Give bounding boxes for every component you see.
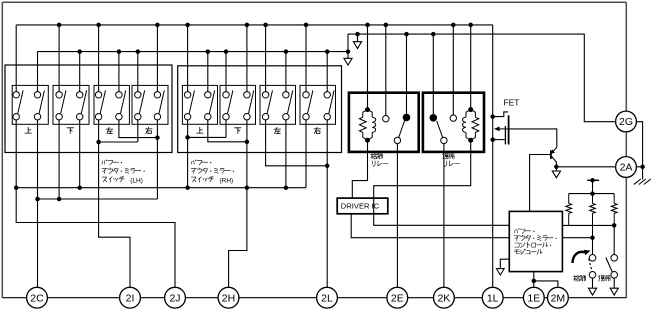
power outer mirror switch (RH) box bbox=[178, 66, 342, 153]
contact: retract relay open contact bbox=[383, 116, 389, 122]
relay coil feed: bus1 to return relay coil bbox=[470, 25, 472, 110]
node: bus2 junction bbox=[206, 49, 211, 54]
ground arrow below return switch bbox=[610, 288, 618, 295]
arrow: page arrow below Q1 collector bbox=[555, 167, 557, 171]
wire: y34 drop to return relay NC contact bbox=[432, 34, 434, 114]
wire: link RH up-left to down-left bbox=[188, 136, 226, 138]
label: return relay caption bbox=[442, 153, 445, 155]
wire: bus1 drop to switch bbox=[98, 25, 100, 92]
wire: RH right-left drop to line A end bbox=[305, 120, 307, 188]
wire: DRIVER IC bottom pin to module bbox=[351, 214, 509, 238]
contact: return relay closed contact (filled) bbox=[430, 114, 438, 122]
transistor FET source lead bbox=[493, 139, 505, 141]
wire: RH down-right down through line A to 2H bbox=[229, 120, 247, 298]
wire: link to 2M bbox=[534, 281, 558, 298]
wire: RH down-left drop to link bbox=[225, 120, 227, 137]
wire: bus 2 (lower horizontal supply bus) bbox=[38, 51, 349, 53]
resistor R at x=592.5 bbox=[592, 194, 594, 204]
node: bus2 junction bbox=[224, 49, 229, 54]
wire: bus2 drop to switch bbox=[37, 52, 39, 92]
switch contact pair (LH 右) bbox=[159, 90, 164, 113]
transistor FET body arrow bbox=[499, 128, 508, 130]
switch unit 左 (RH) box bbox=[260, 85, 296, 124]
ground: chassis ground hatching bbox=[634, 179, 641, 185]
node: bus1 junction bbox=[245, 23, 250, 28]
node: retract switch node bbox=[590, 235, 595, 240]
wire: LH up-right down to line B and 2C bbox=[37, 120, 39, 298]
node: junction on LH right-right wire bbox=[155, 135, 160, 140]
svg-text:FET: FET bbox=[504, 97, 520, 107]
node: return switch node bbox=[612, 223, 617, 228]
switch contact pair (LH 左) bbox=[100, 90, 105, 113]
wire: bus1 drop to switch bbox=[246, 25, 248, 92]
connector terminal 2C bbox=[27, 287, 48, 308]
wire: resistor 1 tail to module line bbox=[568, 213, 570, 225]
node: bus1 junction bbox=[263, 23, 268, 28]
wire: module bottom to 1E bbox=[533, 272, 535, 298]
node: FET drain tap bbox=[490, 114, 495, 119]
switch unit 下 (LH) box bbox=[53, 85, 89, 124]
ic: DRIVER IC box bbox=[337, 198, 388, 214]
label: retract (kakunou) bbox=[574, 275, 576, 281]
wire: LH right-right down to line B bbox=[156, 120, 158, 199]
transistor Q1 collector bbox=[552, 156, 557, 166]
wire: return relay coil to module (crosses DRIVER IC box) bbox=[374, 140, 510, 225]
svg-text:1E: 1E bbox=[527, 292, 540, 304]
connector terminal 2E bbox=[387, 287, 408, 308]
node: FET source tap bbox=[490, 137, 495, 142]
label: 下 (LH) bbox=[67, 127, 73, 129]
relay coil feed: bus1 to retract relay coil bbox=[367, 25, 369, 110]
wire: LH right-left drop to link bbox=[137, 120, 139, 142]
node: bus2 junction bbox=[136, 49, 141, 54]
wire: link LH left-left to right-left bbox=[99, 141, 138, 143]
switch unit 上 (LH) box bbox=[12, 85, 48, 124]
switch contact pair (RH 下) bbox=[228, 90, 233, 113]
switch unit 右 (LH) box bbox=[132, 85, 168, 124]
wire: bus2 drop to switch bbox=[137, 52, 139, 92]
node: line A junction at LH up-left bbox=[14, 185, 19, 190]
wire: 2G right loop to ground bbox=[636, 122, 642, 180]
label: 右 (RH) bbox=[314, 128, 321, 130]
node: bus1 junction for return coil bbox=[468, 23, 473, 28]
wire: bus2 drop to switch bbox=[118, 52, 120, 92]
svg-text:2A: 2A bbox=[620, 162, 633, 174]
svg-text:2K: 2K bbox=[437, 292, 450, 304]
relay: retract relay (Kakunou relay) box bbox=[349, 93, 419, 152]
node: bus2 junction bbox=[284, 49, 289, 54]
node: junction LH left-left / right-left link bbox=[96, 140, 101, 145]
wire: RH up-left down to line A bbox=[187, 120, 189, 188]
svg-text:1L: 1L bbox=[487, 292, 499, 304]
wire: resistor 3 tail to retract line bbox=[613, 213, 615, 225]
wire: bus1 drop to switch bbox=[187, 25, 189, 92]
switch contact pair (LH 上) bbox=[39, 90, 44, 113]
node: junction on RH right-right wire (to 2L) bbox=[325, 164, 330, 169]
connector terminal 2A bbox=[616, 157, 637, 178]
node: y34 junction for retract NC contact bbox=[404, 32, 409, 37]
contact: retract relay common bbox=[394, 137, 400, 143]
svg-text:2M: 2M bbox=[551, 292, 566, 304]
label: switch LH caption bbox=[101, 161, 104, 164]
svg-text:2J: 2J bbox=[169, 292, 180, 304]
wire: bus1 drop to switch bbox=[305, 25, 307, 92]
switch contact pair (LH 下) bbox=[81, 90, 86, 113]
wire: Q1 base to module top bbox=[530, 155, 551, 212]
node: bus1 junction bbox=[155, 23, 160, 28]
transistor FET gate bar bbox=[504, 126, 506, 144]
switch contact pair (RH 上) bbox=[209, 90, 214, 113]
wire: link bus2 end up to y34 line bbox=[347, 34, 349, 52]
arrow: page arrow below y34 line bbox=[357, 34, 359, 42]
svg-text:2H: 2H bbox=[222, 292, 235, 304]
wire: y34 branch line from bus2 to 2G bbox=[348, 34, 616, 122]
wire: bus2 drop to switch bbox=[326, 52, 328, 92]
transistor Q1 base bar bbox=[550, 150, 552, 159]
node: bus2 junction bbox=[77, 49, 82, 54]
switch unit 左 (LH) box bbox=[94, 85, 129, 124]
node: line B junction at LH down-left bbox=[57, 197, 62, 202]
node: line A junction at RH down-right bbox=[245, 185, 250, 190]
connector terminal 2M bbox=[548, 287, 569, 308]
switch: mirror return position switch bbox=[613, 225, 615, 254]
switch contact pair (LH 左) bbox=[121, 90, 126, 113]
relay coil L2 with parallel resistor (return relay) bbox=[463, 110, 479, 141]
switch contact pair (LH 上) bbox=[18, 90, 23, 113]
wire: line B common bus bbox=[38, 198, 158, 200]
wire: return relay common down to 2K bbox=[443, 144, 445, 298]
contact: return relay common bbox=[441, 137, 447, 143]
node: resistor bus junction bbox=[590, 191, 595, 196]
arrow: retract actuation arrow bbox=[573, 252, 585, 263]
node: line A junction at RH left-right bbox=[284, 185, 289, 190]
wire: LH left-right elbow to right-right bbox=[119, 120, 157, 138]
switch contact pair (LH 下) bbox=[61, 90, 66, 113]
wire: bus2 drop to switch bbox=[285, 52, 287, 92]
arrow: page arrow below bus2 end bbox=[347, 52, 349, 59]
transistor FET channel bar bbox=[508, 115, 510, 144]
node: junction RH up-left / down-left link bbox=[185, 135, 190, 140]
label: 左 (RH) bbox=[274, 128, 281, 130]
node: line A junction at RH up-left bbox=[185, 185, 190, 190]
connector terminal 2J bbox=[165, 287, 186, 308]
node: bus2 junction bbox=[117, 49, 122, 54]
wire: bus1 drop to switch bbox=[265, 25, 267, 92]
contact: retract relay closed contact (filled) bbox=[403, 114, 411, 122]
node: bus1 junction for return NO contact bbox=[451, 23, 456, 28]
node: junction above 1E bbox=[532, 279, 537, 284]
label: 下 (RH) bbox=[235, 127, 241, 129]
connector terminal 2K bbox=[434, 287, 455, 308]
wire: retract relay common down to 2E bbox=[396, 144, 398, 298]
wire: bus1 drop to switch bbox=[15, 25, 17, 92]
wire: LH up-left down through line A to 2J elbow bbox=[16, 120, 175, 298]
switch contact pair (RH 左) bbox=[267, 90, 272, 113]
label: retract relay caption bbox=[371, 153, 373, 159]
wire: LH left-left down to 2I elbow bbox=[99, 120, 130, 298]
wire: 2A right stub bbox=[636, 166, 642, 168]
node: line B junction at LH up-right bbox=[35, 197, 40, 202]
relay blade: retract relay bbox=[399, 121, 405, 138]
wire: resistor top bus bbox=[569, 193, 615, 195]
svg-text:2L: 2L bbox=[321, 292, 333, 304]
wire: RH left-right drop to line A bbox=[285, 120, 287, 188]
wire: bus1 drop to switch bbox=[58, 25, 60, 92]
power outer mirror switch (LH) box bbox=[5, 65, 172, 153]
svg-text:2C: 2C bbox=[30, 292, 44, 304]
node: retract coil top bbox=[365, 107, 370, 112]
wire: bus1 drop to return relay NO contact bbox=[452, 25, 454, 115]
wire: bus2 drop to switch bbox=[225, 52, 227, 92]
svg-text:2E: 2E bbox=[391, 292, 404, 304]
wire: retract coil to DRIVER IC bbox=[352, 140, 367, 198]
switch unit 右 (RH) box bbox=[300, 85, 336, 124]
node: bus1 junction bbox=[304, 23, 309, 28]
wire: RH right-right down to 2L bbox=[326, 120, 328, 298]
wire: power tap to resistor bus bbox=[592, 180, 594, 193]
node: bus1 junction for retract NO contact bbox=[384, 23, 389, 28]
wire: line A common bus bbox=[16, 187, 306, 189]
svg-text:(LH): (LH) bbox=[130, 177, 143, 184]
wire: outer loop left side bbox=[1, 2, 3, 297]
svg-text:2I: 2I bbox=[126, 292, 135, 304]
switch contact pair (LH 右) bbox=[139, 90, 144, 113]
node: bus1 junction bbox=[185, 23, 190, 28]
wire: resistor 2 tail to return line bbox=[592, 213, 594, 237]
wire: Q1 collector to 2A bbox=[556, 166, 615, 168]
node: line A junction at LH down-right bbox=[77, 185, 82, 190]
switch unit 上 (RH) box bbox=[182, 85, 217, 124]
node: Q1 collector junction bbox=[554, 165, 559, 170]
label: 右 (LH) bbox=[146, 128, 153, 130]
node: y34 junction with page arrow bbox=[355, 32, 360, 37]
wire: RH up-right elbow to down-right bbox=[208, 120, 247, 142]
switch contact pair (RH 左) bbox=[288, 90, 293, 113]
node: bus2 junction bbox=[325, 49, 330, 54]
node: junction on RH down-right wire bbox=[245, 140, 250, 145]
switch contact pair (RH 上) bbox=[189, 90, 194, 113]
wire: module ground stub bbox=[500, 259, 509, 268]
node: bus1 junction for retract coil bbox=[365, 23, 370, 28]
connector terminal 1E bbox=[523, 287, 544, 308]
switch unit 下 (RH) box bbox=[220, 85, 256, 124]
ground arrow below module bbox=[496, 269, 504, 275]
node: retract coil bottom bbox=[365, 138, 370, 143]
label: switch RH caption bbox=[190, 161, 193, 164]
node: power tap junction bbox=[590, 178, 595, 183]
wire: module right pin to return switch line bbox=[562, 237, 592, 239]
module: power outer mirror control module box bbox=[509, 211, 562, 271]
wire: outer loop top side bbox=[2, 1, 626, 3]
node: bus2 end junction bbox=[346, 49, 351, 54]
wire: bus2 drop to switch bbox=[207, 52, 209, 92]
contact: return relay open contact bbox=[450, 115, 456, 121]
node: bus1 junction bbox=[57, 23, 62, 28]
relay coil L1 with parallel resistor (retract relay) bbox=[359, 110, 375, 141]
connector terminal 1L bbox=[482, 287, 503, 308]
node: ground junction right of 2A bbox=[640, 165, 645, 170]
node: bus1 junction bbox=[96, 23, 101, 28]
wire: outer loop right side (through 2G and 2A) bbox=[625, 2, 627, 297]
label: 左 (LH) bbox=[106, 128, 113, 130]
wire: bus 1 (upper horizontal supply bus) bbox=[16, 24, 493, 26]
resistor R at x=568.7 bbox=[568, 194, 570, 204]
wire: LH down-left drop to line B bbox=[58, 120, 60, 199]
node: return coil bottom bbox=[468, 138, 473, 143]
connector terminal 2I bbox=[120, 287, 141, 308]
ground arrow below retract switch bbox=[588, 288, 596, 295]
wire: LH down-right drop to line A bbox=[79, 120, 81, 188]
label: return (fukki) bbox=[598, 275, 601, 277]
label: 上 (LH) bbox=[27, 127, 29, 133]
wire: bus1 drop to switch bbox=[156, 25, 158, 92]
svg-text:2G: 2G bbox=[619, 116, 633, 128]
wire: bus1 end down through FET to 1L bbox=[492, 25, 494, 298]
resistor R at x=614.2 bbox=[613, 194, 615, 204]
connector terminal 2G bbox=[616, 111, 637, 132]
transistor FET drain lead bbox=[493, 112, 509, 117]
relay: return relay (Fukki relay) box bbox=[423, 93, 484, 152]
connector terminal 2H bbox=[218, 287, 239, 308]
wire: bus2 drop to switch bbox=[79, 52, 81, 92]
wire: RH left-left elbow to right-right wire bbox=[266, 120, 328, 166]
switch: mirror retract position switch bbox=[592, 238, 594, 255]
transistor Q1 emitter with arrow bbox=[552, 147, 557, 152]
label: control module caption bbox=[514, 230, 517, 233]
switch contact pair (RH 右) bbox=[308, 90, 313, 113]
wire: y34 drop to retract relay NC contact bbox=[406, 34, 408, 114]
svg-text:(RH): (RH) bbox=[220, 177, 234, 184]
wire: bus1 drop to retract relay NO contact bbox=[385, 25, 387, 116]
connector terminal 2L bbox=[317, 287, 338, 308]
relay blade: return relay bbox=[437, 121, 443, 137]
power tap bar above resistors bbox=[587, 179, 599, 181]
wire: FET gate to transistor bbox=[509, 129, 557, 148]
label: 上 (RH) bbox=[199, 127, 201, 133]
wire: bottom terminal chain bbox=[2, 297, 626, 299]
wire: module right pin to retract switch line bbox=[562, 224, 614, 226]
node: return coil top bbox=[468, 107, 473, 112]
node: y34 junction for return NC contact bbox=[431, 32, 436, 37]
switch contact pair (RH 下) bbox=[249, 90, 254, 113]
switch contact pair (RH 右) bbox=[329, 90, 334, 113]
